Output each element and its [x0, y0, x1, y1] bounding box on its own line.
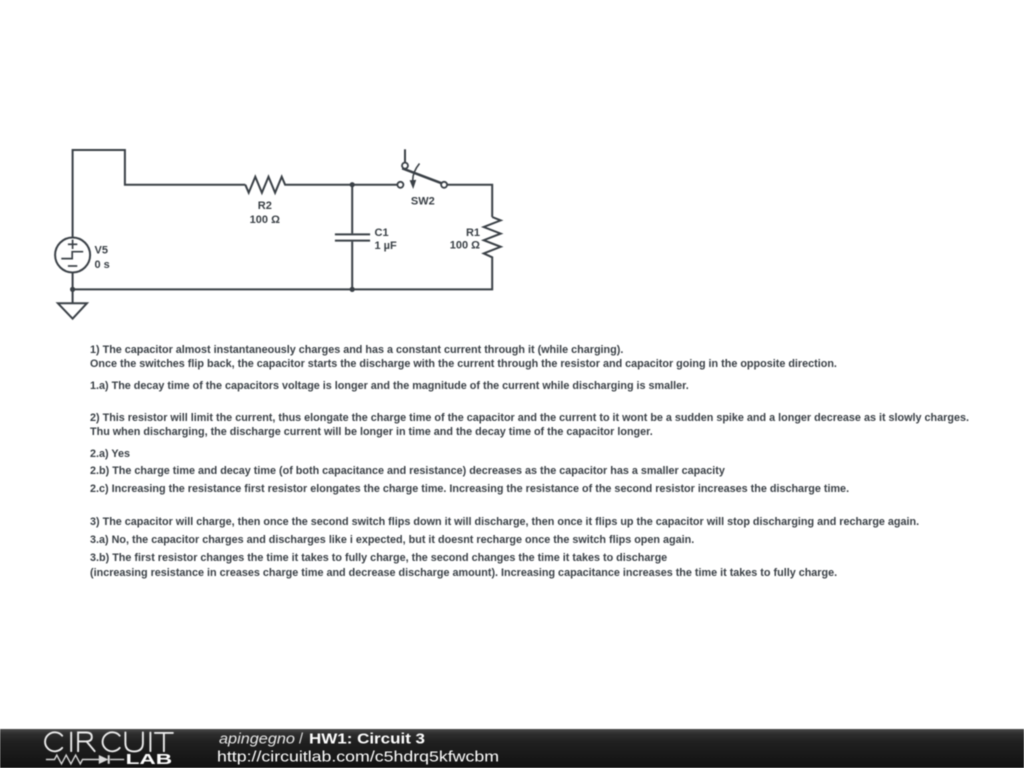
svg-text:SW2: SW2 [411, 195, 435, 207]
svg-text:LAB: LAB [126, 752, 173, 768]
svg-text:http://circuitlab.com/c5hdrq5k: http://circuitlab.com/c5hdrq5kfwcbm [217, 750, 499, 766]
svg-text:100 Ω: 100 Ω [450, 240, 480, 252]
svg-text:apingegno: apingegno [219, 731, 295, 747]
svg-text:/: / [299, 731, 304, 747]
svg-text:100 Ω: 100 Ω [250, 214, 280, 226]
svg-text:HW1: Circuit 3: HW1: Circuit 3 [309, 731, 425, 747]
svg-text:C1: C1 [375, 227, 389, 239]
svg-text:V5: V5 [95, 244, 108, 256]
svg-text:0 s: 0 s [95, 259, 110, 271]
svg-text:R1: R1 [466, 227, 480, 239]
svg-text:1 µF: 1 µF [375, 240, 398, 252]
svg-text:R2: R2 [258, 200, 272, 212]
